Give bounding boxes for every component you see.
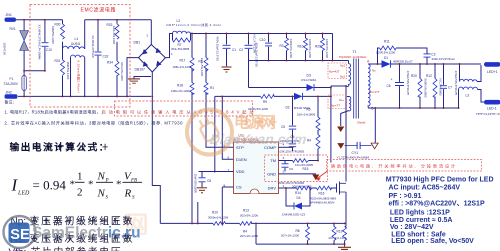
resistor R14 xyxy=(295,186,312,195)
svg-text:LED open : Safe, Vo<50V: LED open : Safe, Vo<50V xyxy=(391,238,474,245)
svg-text:1M0+1%,1206: 1M0+1%,1206 xyxy=(173,65,192,69)
svg-text:E04+5%,1206: E04+5%,1206 xyxy=(200,58,204,77)
svg-text:10uF/25V,0805: 10uF/25V,0805 xyxy=(194,174,198,194)
svg-text:DRV: DRV xyxy=(268,186,277,191)
junction dots ic section xyxy=(191,160,345,246)
svg-text:1M0+1%,1206: 1M0+1%,1206 xyxy=(171,89,190,93)
resistor R21 xyxy=(426,74,442,97)
svg-text:331K,1KV,P=5mm: 331K,1KV,P=5mm xyxy=(432,57,456,61)
capacitor C9 xyxy=(282,164,294,171)
resistor R5 xyxy=(297,108,320,131)
svg-text:100R,5%,1206: 100R,5%,1206 xyxy=(376,51,396,55)
capacitor C3 xyxy=(424,53,456,62)
svg-text:1M0/5%,1206: 1M0/5%,1206 xyxy=(66,62,70,80)
svg-text:Ns=17T: Ns=17T xyxy=(369,90,380,94)
diode D3 xyxy=(301,74,317,92)
svg-text:AC input: AC85~264V: AC input: AC85~264V xyxy=(389,184,461,191)
svg-text:RV1: RV1 xyxy=(10,27,16,31)
resistor R13 inline xyxy=(240,209,259,238)
svg-text:L3: L3 xyxy=(466,93,470,97)
svg-text:LED: LED xyxy=(17,191,30,197)
svg-text:51K+1%,0805: 51K+1%,0805 xyxy=(297,113,316,117)
wire C5 C4 column xyxy=(292,96,294,151)
wire line1 top right segment xyxy=(85,19,152,21)
ground of C1 xyxy=(222,67,232,72)
svg-text:100K,5%,1206: 100K,5%,1206 xyxy=(308,39,312,58)
earth ground at bridge xyxy=(128,77,151,84)
svg-text:GND: GND xyxy=(267,172,276,177)
terminal LED+ xyxy=(484,62,500,67)
svg-text:*: * xyxy=(70,179,76,191)
resistor R11 xyxy=(376,40,396,55)
svg-text:103K,25V,X7R,0805: 103K,25V,X7R,0805 xyxy=(278,149,304,153)
wire L1 row2 ends down xyxy=(71,58,85,97)
transformer T1 secondary winding xyxy=(368,64,370,108)
capacitor C6 output xyxy=(387,71,411,96)
svg-text:D1: D1 xyxy=(384,56,388,60)
terminal LED- xyxy=(484,100,500,105)
svg-text:E04+5%,1206: E04+5%,1206 xyxy=(112,26,116,45)
wire mid rail xyxy=(249,60,349,62)
wire TVS column xyxy=(23,20,25,71)
svg-text:+: + xyxy=(391,78,393,82)
svg-text:C8: C8 xyxy=(207,179,211,183)
bridge rectifier DB1 xyxy=(134,34,174,73)
svg-text:DB1: DB1 xyxy=(134,40,141,44)
wire R8 stubs xyxy=(307,223,309,244)
svg-text:T1: T1 xyxy=(353,50,357,54)
svg-text:HER305,Do-27: HER305,Do-27 xyxy=(393,60,413,64)
svg-text:D3: D3 xyxy=(307,74,311,78)
svg-text:N.C,5%,0805: N.C,5%,0805 xyxy=(438,79,442,97)
svg-text:Np1: Np1 xyxy=(340,64,346,68)
wire aux top stub xyxy=(347,96,349,98)
svg-text:C3: C3 xyxy=(431,53,435,57)
svg-text:DB107: DB107 xyxy=(135,68,145,72)
svg-text:R33: R33 xyxy=(107,23,113,27)
svg-text:2: 2 xyxy=(77,187,83,199)
wire R33 R34 column xyxy=(116,20,118,97)
transformer T1 primary winding xyxy=(347,64,351,87)
svg-text:*: * xyxy=(88,179,94,191)
transformer T1 core xyxy=(354,59,359,119)
wire L5 top winding leads xyxy=(460,64,482,82)
svg-text:100K,5%,1206: 100K,5%,1206 xyxy=(289,39,293,58)
svg-text:Np=42T: Np=42T xyxy=(329,70,340,74)
junction dots input section xyxy=(23,19,153,98)
svg-text:R20: R20 xyxy=(411,74,417,78)
wire R19 bottom stub xyxy=(345,227,346,245)
wire bridge right to L3 xyxy=(165,34,172,58)
svg-text:Ns+: Ns+ xyxy=(339,98,344,102)
svg-text:C1: C1 xyxy=(232,48,236,52)
svg-text:10D471K: 10D471K xyxy=(3,43,7,56)
svg-text:Y1,222M,400V,P=10MM: Y1,222M,400V,P=10MM xyxy=(337,156,370,160)
svg-text:R18: R18 xyxy=(177,84,183,88)
wire L1 row1 right riser xyxy=(84,20,86,49)
red annotation arrow xyxy=(317,171,328,179)
wire bridge bottom return xyxy=(152,72,160,223)
svg-text:UU9.8: UU9.8 xyxy=(71,42,80,46)
wire rail B line2 xyxy=(18,95,151,97)
wire ground stem xyxy=(344,244,346,247)
svg-text:207+1%,1206: 207+1%,1206 xyxy=(281,233,299,237)
svg-text:R9: R9 xyxy=(263,100,267,104)
resistor R30 xyxy=(51,23,65,45)
svg-text:450V,10uF,13.5*20: 450V,10uF,13.5*20 xyxy=(216,37,220,62)
svg-text:PQ20/20: 1pri340uH: PQ20/20: 1pri340uH xyxy=(339,55,366,59)
wire C9 leads xyxy=(284,161,286,172)
WIRES-AND-PARTS xyxy=(16,20,333,224)
wire C8 lower column xyxy=(197,202,199,223)
svg-text:R31: R31 xyxy=(55,59,61,63)
wire GND pin xyxy=(279,173,317,175)
diode D1 xyxy=(382,56,413,68)
terminal JN2 xyxy=(5,94,18,98)
svg-text:D4: D4 xyxy=(297,196,301,200)
wire R20 column xyxy=(419,64,421,108)
svg-text:LED+1: LED+1 xyxy=(487,70,498,74)
svg-text:1M0/5%,1206: 1M0/5%,1206 xyxy=(51,26,55,44)
svg-text:TM: TM xyxy=(270,158,276,163)
wire D3 row xyxy=(249,61,331,88)
svg-text:C2: C2 xyxy=(239,48,243,52)
wire CY1 column xyxy=(374,108,376,143)
ground of C8 xyxy=(197,188,207,193)
capacitor C16 xyxy=(252,35,272,54)
wire D2 node column xyxy=(330,86,332,163)
wire rail A xyxy=(24,70,45,72)
svg-text:CY1: CY1 xyxy=(352,151,359,155)
resistor R31 xyxy=(55,59,71,80)
svg-text:R5: R5 xyxy=(307,108,311,112)
wire COMP xyxy=(279,146,293,148)
wire ladder columns xyxy=(287,34,323,61)
capacitor C10 xyxy=(38,25,53,60)
resistor R20 xyxy=(411,74,428,98)
red callout Np42T xyxy=(328,63,347,79)
svg-text:芯片内部参考电压: 芯片内部参考电压 xyxy=(31,246,121,251)
wire line1 top left xyxy=(16,19,63,21)
svg-text:D1EN: D1EN xyxy=(236,157,247,162)
svg-text:470uF,50V,8*20,P5: 470uF,50V,8*20,P5 xyxy=(454,71,458,96)
resistor R17 xyxy=(173,58,195,72)
svg-text:PF : >0.91: PF : >0.91 xyxy=(389,193,422,200)
svg-text:US1J,SMA: US1J,SMA xyxy=(301,78,317,82)
wire sense rail upper xyxy=(160,222,344,224)
resistor R12 ladder xyxy=(315,38,329,58)
svg-text:R3: R3 xyxy=(280,44,284,48)
resistor R3s shunt xyxy=(332,227,336,241)
capacitor C7 xyxy=(440,71,458,96)
capacitor C8 xyxy=(194,174,212,194)
svg-text:2: 2 xyxy=(283,170,285,174)
svg-text:LED-1: LED-1 xyxy=(487,107,497,111)
wire R1 R2 column to STP xyxy=(206,34,234,148)
inductor L1 common-mode choke xyxy=(63,37,85,93)
svg-text:3K3+5%,0805: 3K3+5%,0805 xyxy=(171,47,190,51)
wire primary top stub xyxy=(348,61,350,64)
wire mosfet source xyxy=(345,192,347,227)
svg-text:启动电阻可以任意输入电压从AC85~264V起动: 启动电阻可以任意输入电压从AC85~264V起动 xyxy=(102,109,254,116)
red callout Np7T xyxy=(328,95,347,109)
resistor R34 xyxy=(107,61,124,82)
svg-text:R11: R11 xyxy=(384,40,390,44)
EMC dashed box xyxy=(30,5,130,108)
wire C2 column xyxy=(248,34,250,61)
red dashed note box right xyxy=(327,160,482,172)
svg-text:C6: C6 xyxy=(387,84,391,88)
cjk densify strokes xyxy=(12,117,277,241)
svg-text:SamElectric.ru: SamElectric.ru xyxy=(32,225,141,242)
svg-text:LED lights :12S1P: LED lights :12S1P xyxy=(390,209,450,216)
svg-text:R12: R12 xyxy=(426,74,432,78)
spec text block xyxy=(386,177,494,245)
wire R9 D2 row xyxy=(215,95,331,97)
svg-text:EMC滤波电路: EMC滤波电路 xyxy=(81,7,116,14)
svg-text:R16: R16 xyxy=(319,191,325,195)
wire F1 leads xyxy=(23,71,25,97)
varistor RV1 xyxy=(3,27,29,55)
diode D4 xyxy=(282,196,305,217)
junction dots output xyxy=(345,63,460,109)
wire C10 column xyxy=(44,20,46,71)
resistor R8 shunt xyxy=(281,227,310,241)
inductor L5 top winding xyxy=(460,79,477,81)
wire C16 column xyxy=(268,34,270,61)
wire R21 column xyxy=(434,64,436,108)
watermark samelectric xyxy=(4,216,141,248)
wire CS xyxy=(222,187,233,223)
wire C7 column xyxy=(443,64,445,108)
resistor R15 xyxy=(293,159,314,171)
svg-text:DianYuan.com: DianYuan.com xyxy=(209,131,307,147)
formula I LED xyxy=(11,171,143,201)
wire R30 R31 column xyxy=(62,20,64,97)
wire sense rail lower xyxy=(256,243,345,245)
svg-text:R13: R13 xyxy=(243,209,249,213)
resistor R3 ladder xyxy=(280,38,294,58)
resistor R10s inline xyxy=(208,211,229,226)
shield ground triangle xyxy=(337,127,344,133)
svg-text:R4: R4 xyxy=(307,139,311,143)
svg-text:N: N xyxy=(97,188,106,200)
transformer T1 aux winding xyxy=(349,97,351,111)
wire L3 to top rail xyxy=(191,33,333,35)
svg-text:C10: C10 xyxy=(260,38,266,42)
wire riser to bridge left xyxy=(127,58,139,97)
wire R7 parallel stubs xyxy=(173,34,191,41)
resistor R4comp xyxy=(307,135,320,149)
svg-text:T9*5*1.0,16*6T,>150uH: T9*5*1.0,16*6T,>150uH xyxy=(476,112,500,116)
diode D2 xyxy=(286,93,311,110)
wire R5 R4 column xyxy=(317,96,319,160)
svg-text:X2,684K,275VAC: X2,684K,275VAC xyxy=(91,36,95,58)
svg-text:R34: R34 xyxy=(107,61,113,65)
resistor R16 xyxy=(310,186,337,204)
svg-text:JN1: JN1 xyxy=(6,13,12,17)
svg-text:Np=7T: Np=7T xyxy=(331,104,340,108)
wire drain link xyxy=(331,85,346,87)
svg-text:R20: R20 xyxy=(315,45,321,49)
capacitor C32 xyxy=(91,36,109,59)
resistor R7 xyxy=(171,38,191,51)
wire drain column xyxy=(345,86,347,182)
wire secondary top to D1 xyxy=(368,63,382,65)
wire secondary bottom rail xyxy=(368,107,459,109)
resistor R10 ladder xyxy=(298,38,313,58)
svg-text:effi : >87%@AC220V、12S1P: effi : >87%@AC220V、12S1P xyxy=(389,201,485,208)
svg-text:= 0.94: = 0.94 xyxy=(33,178,67,193)
wire bridge top feed xyxy=(150,20,152,45)
svg-text:R17: R17 xyxy=(180,59,186,63)
resistor R19 shunt xyxy=(329,227,347,241)
svg-text:E04+5%,1206: E04+5%,1206 xyxy=(120,63,124,82)
svg-text:100K,5%,1206: 100K,5%,1206 xyxy=(325,39,329,58)
svg-text:2. 芯片效率在AC输入时开关频率抖动，3脚对地电容（阻值R: 2. 芯片效率在AC输入时开关频率抖动，3脚对地电容（阻值R15欧），推荐. M… xyxy=(5,120,184,127)
svg-text:1: 1 xyxy=(77,171,83,183)
wire TM to R15 xyxy=(279,160,319,162)
wire C8 leads xyxy=(201,172,203,188)
junction dots hv section xyxy=(191,33,333,173)
wire shunt column left xyxy=(255,223,257,244)
svg-text:1: 1 xyxy=(171,52,173,56)
svg-text:R15: R15 xyxy=(303,167,309,171)
svg-text:C10: C10 xyxy=(46,48,52,52)
svg-text:L1: L1 xyxy=(75,37,79,41)
watermark dianyuan center xyxy=(187,110,307,155)
svg-text:Np1: Np1 xyxy=(340,75,346,79)
transistor Q1 mosfet xyxy=(337,182,347,195)
svg-text:3: 3 xyxy=(283,156,285,160)
fuse F1 xyxy=(4,76,27,91)
resistor R1 xyxy=(199,58,209,77)
resistor R2 xyxy=(204,83,214,95)
svg-text:1N4148,SOD-123: 1N4148,SOD-123 xyxy=(282,213,305,217)
wire DRV to gate xyxy=(279,187,337,189)
svg-text:470uF,50V,8*20,P5: 470uF,50V,8*20,P5 xyxy=(406,71,410,96)
svg-text:CS: CS xyxy=(236,185,242,190)
svg-text:Shield: Shield xyxy=(357,121,366,125)
svg-text:2: 2 xyxy=(147,34,149,38)
svg-text:002+5%,1206: 002+5%,1206 xyxy=(240,213,258,217)
svg-text:R10: R10 xyxy=(212,211,218,215)
svg-text:F1: F1 xyxy=(10,77,14,81)
wire VDD xyxy=(199,171,234,173)
svg-text:AP04N60I,4A,600V: AP04N60I,4A,600V xyxy=(310,201,335,205)
capacitor C4 comp xyxy=(278,135,304,153)
svg-text:MT7930 High PFC Demo for LED: MT7930 High PFC Demo for LED xyxy=(386,177,494,184)
wire R3s stubs xyxy=(333,223,335,244)
wire VDD feed column xyxy=(214,96,216,171)
capacitor C5 xyxy=(280,125,299,143)
svg-text:*: * xyxy=(116,179,122,191)
terminal JN1 xyxy=(5,18,17,22)
inductor L3 xyxy=(167,19,221,34)
svg-text:1. 电阻R17，R18为启动电阻兼X电容泄放电阻，: 1. 电阻R17，R18为启动电阻兼X电容泄放电阻， xyxy=(5,109,101,116)
inductor L5 bottom winding xyxy=(459,87,478,89)
svg-text:辆助供电C电路, 开关频率抖动, 分段限流设计: 辆助供电C电路, 开关频率抖动, 分段限流设计 xyxy=(331,163,455,169)
svg-text:备注：: 备注： xyxy=(5,100,17,105)
svg-text:Ns: Ns xyxy=(372,69,376,73)
svg-text:C32: C32 xyxy=(103,55,109,59)
svg-text:N.C,X7R,1206: N.C,X7R,1206 xyxy=(252,35,256,54)
ground primary sense xyxy=(338,247,351,251)
svg-text:R10: R10 xyxy=(298,45,304,49)
ground triangle GND pin xyxy=(312,175,319,181)
svg-text:C5: C5 xyxy=(281,125,285,129)
svg-text:560R,5%,0805: 560R,5%,0805 xyxy=(424,79,428,99)
wire snubber R11 C3 xyxy=(378,48,428,64)
svg-text:S: S xyxy=(132,196,135,201)
capacitor C1 xyxy=(216,37,237,62)
capacitor C2 xyxy=(239,43,259,68)
svg-text:N: N xyxy=(97,171,106,183)
resistor R9 xyxy=(248,94,274,111)
resistor R33 xyxy=(107,23,120,45)
svg-text:LED current ≈ 0.5A: LED current ≈ 0.5A xyxy=(390,217,453,224)
svg-text:R: R xyxy=(124,188,132,200)
svg-text:R19: R19 xyxy=(337,230,343,234)
wire C6 column xyxy=(399,64,401,108)
resistor R18 xyxy=(171,83,194,95)
svg-text:Vo : 28V~42V: Vo : 28V~42V xyxy=(390,224,434,231)
svg-text:3000m1%,1206: 3000m1%,1206 xyxy=(208,216,229,220)
svg-text:C9: C9 xyxy=(289,167,293,171)
red dashed box TM network xyxy=(265,155,328,182)
svg-text:207+1%,1206: 207+1%,1206 xyxy=(240,234,258,238)
svg-text:SE: SE xyxy=(10,227,30,243)
wire D4 bypass loop xyxy=(286,188,310,206)
svg-text:DR8*12mm,0.32mm线圆,3.3mH: DR8*12mm,0.32mm线圆,3.3mH xyxy=(167,22,221,27)
capacitor CY1 xyxy=(337,142,379,160)
red dashed note emphasis box xyxy=(115,101,253,116)
svg-text:R1: R1 xyxy=(210,86,214,90)
svg-text:207+1%,1206: 207+1%,1206 xyxy=(329,236,347,240)
wire corner to transformer xyxy=(332,34,334,61)
wire D1EN feed column xyxy=(222,96,233,159)
svg-text:R4: R4 xyxy=(243,229,247,233)
wire C32 column xyxy=(97,20,99,97)
wire C1 column xyxy=(226,34,228,67)
svg-text:D2: D2 xyxy=(286,106,290,110)
svg-text:X2,684K,275VAC,P=10MM: X2,684K,275VAC,P=10MM xyxy=(38,25,42,60)
op-amp U1 MT7930 body xyxy=(224,134,285,194)
wire R17 R18 column down to sense rail xyxy=(191,34,193,224)
svg-text:S: S xyxy=(106,196,109,201)
svg-text:A: A xyxy=(367,60,370,64)
svg-text:JN2: JN2 xyxy=(6,91,12,95)
wire L5 bottom winding leads xyxy=(459,90,485,109)
svg-text:VDD: VDD xyxy=(236,169,245,174)
wire output top rail xyxy=(391,63,482,65)
svg-text:C7: C7 xyxy=(448,86,452,90)
wire aux bottom to shield ground xyxy=(341,111,349,127)
svg-text:0.25mm线圆2,40mH: 0.25mm线圆2,40mH xyxy=(77,61,82,93)
svg-text:6: 6 xyxy=(228,156,230,160)
svg-text:R14: R14 xyxy=(295,191,301,195)
svg-text:T2A-250V: T2A-250V xyxy=(4,82,19,86)
